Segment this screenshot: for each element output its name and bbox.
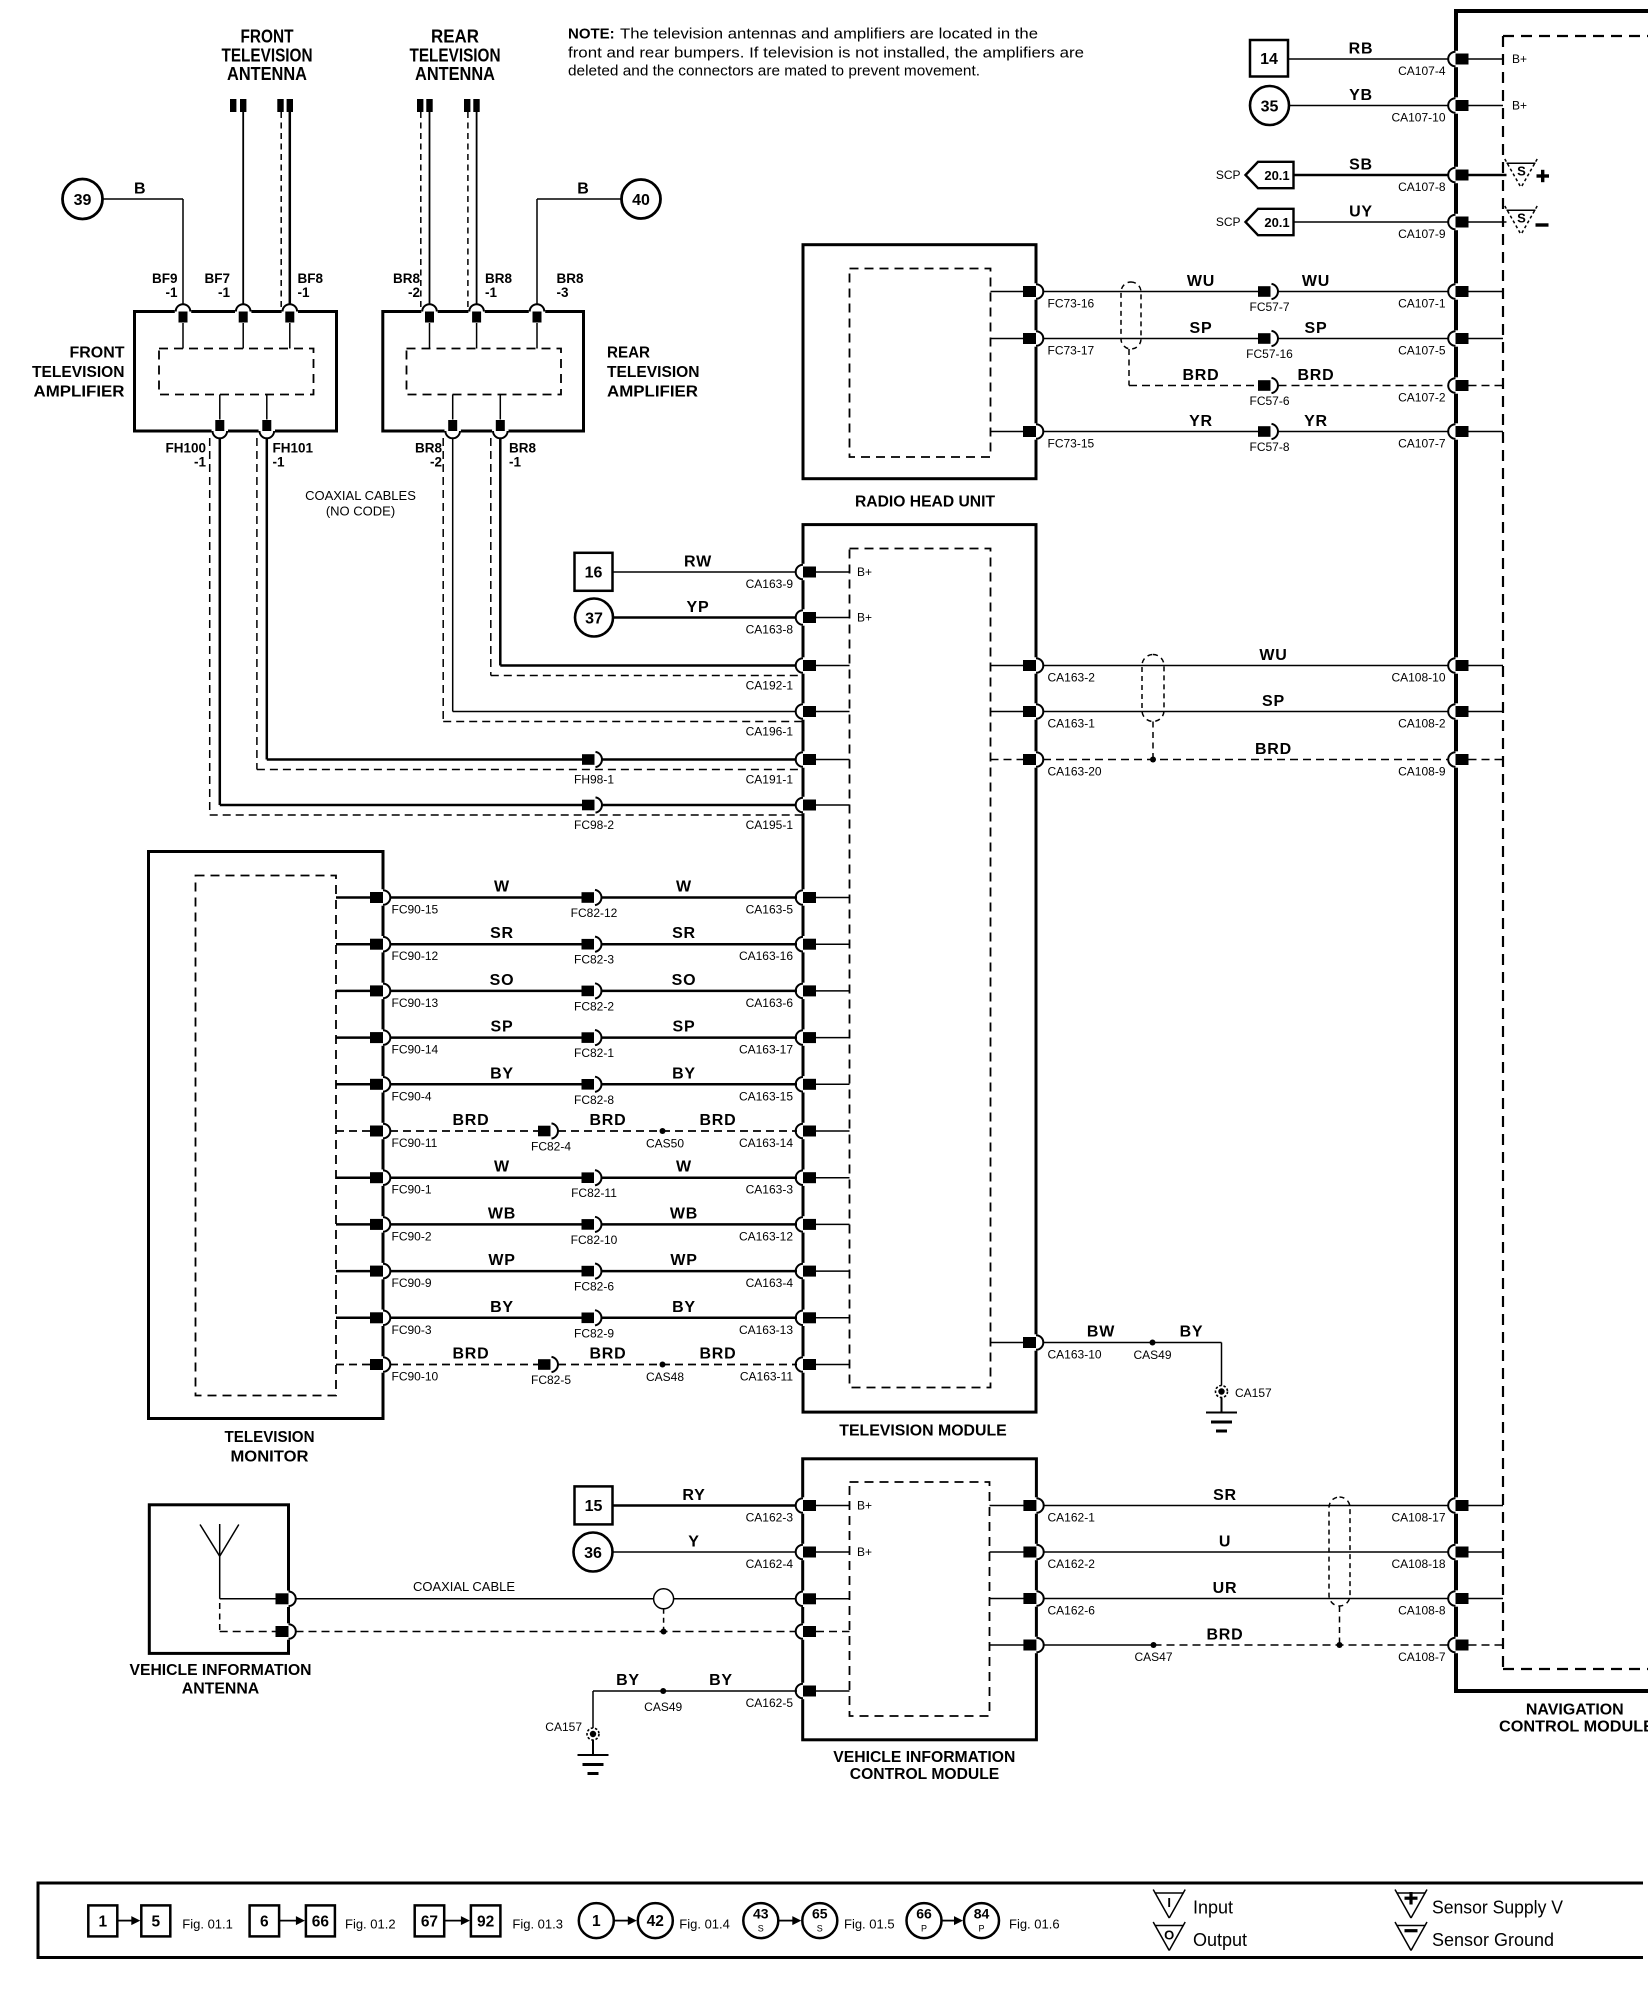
svg-text:SR: SR xyxy=(1213,1487,1237,1504)
svg-text:Fig. 01.4: Fig. 01.4 xyxy=(679,1916,730,1931)
svg-text:WP: WP xyxy=(488,1252,515,1269)
svg-text:FC82-1: FC82-1 xyxy=(574,1046,614,1060)
svg-text:FC73-16: FC73-16 xyxy=(1048,297,1095,311)
svg-text:CA163-1: CA163-1 xyxy=(1048,717,1096,731)
svg-text:BRD: BRD xyxy=(1297,367,1334,384)
svg-text:BF8: BF8 xyxy=(298,271,324,286)
svg-text:S: S xyxy=(817,1924,823,1934)
svg-text:FC57-6: FC57-6 xyxy=(1249,394,1289,408)
svg-text:BR8: BR8 xyxy=(415,441,442,456)
svg-text:FC82-5: FC82-5 xyxy=(531,1373,571,1387)
svg-text:ANTENNA: ANTENNA xyxy=(182,1681,260,1698)
svg-text:FC73-15: FC73-15 xyxy=(1048,437,1095,451)
svg-text:CA157: CA157 xyxy=(1235,1386,1272,1400)
svg-text:6: 6 xyxy=(260,1913,269,1930)
svg-text:CA163-9: CA163-9 xyxy=(746,577,794,591)
svg-text:SP: SP xyxy=(1305,320,1328,337)
svg-text:CONTROL MODULE: CONTROL MODULE xyxy=(1499,1719,1648,1736)
svg-text:YR: YR xyxy=(1304,413,1328,430)
svg-text:-1: -1 xyxy=(218,285,230,300)
svg-text:Fig. 01.6: Fig. 01.6 xyxy=(1009,1916,1060,1931)
svg-text:deleted and the connectors are: deleted and the connectors are mated to … xyxy=(568,63,980,80)
svg-text:Sensor Supply V: Sensor Supply V xyxy=(1432,1897,1563,1917)
svg-text:20.1: 20.1 xyxy=(1264,215,1289,230)
svg-text:CA192-1: CA192-1 xyxy=(746,679,794,693)
svg-text:YP: YP xyxy=(687,599,710,616)
svg-text:B+: B+ xyxy=(857,611,872,625)
svg-text:CA163-14: CA163-14 xyxy=(739,1136,793,1150)
svg-text:1: 1 xyxy=(98,1913,107,1930)
svg-text:S: S xyxy=(758,1924,764,1934)
svg-text:BF9: BF9 xyxy=(152,271,178,286)
svg-text:FC73-17: FC73-17 xyxy=(1048,344,1095,358)
svg-text:ANTENNA: ANTENNA xyxy=(227,64,307,84)
svg-text:FC90-14: FC90-14 xyxy=(392,1043,439,1057)
svg-text:CA191-1: CA191-1 xyxy=(746,773,794,787)
svg-text:-1: -1 xyxy=(509,455,521,470)
svg-text:65: 65 xyxy=(812,1906,828,1922)
svg-text:UR: UR xyxy=(1213,1580,1238,1597)
svg-text:The television antennas and am: The television antennas and amplifiers a… xyxy=(620,26,1038,43)
svg-text:CA163-17: CA163-17 xyxy=(739,1043,793,1057)
svg-text:UY: UY xyxy=(1349,204,1373,221)
svg-text:FC90-12: FC90-12 xyxy=(392,949,439,963)
svg-text:BY: BY xyxy=(490,1065,514,1082)
svg-text:BY: BY xyxy=(490,1299,514,1316)
svg-text:CA108-10: CA108-10 xyxy=(1391,671,1445,685)
svg-text:B: B xyxy=(577,181,589,198)
svg-text:BF7: BF7 xyxy=(204,271,230,286)
svg-text:CA163-13: CA163-13 xyxy=(739,1323,793,1337)
svg-text:CA162-6: CA162-6 xyxy=(1048,1604,1096,1618)
svg-text:CAS50: CAS50 xyxy=(646,1137,684,1151)
svg-text:BY: BY xyxy=(616,1672,640,1689)
svg-text:BR8: BR8 xyxy=(509,441,536,456)
svg-text:CA163-2: CA163-2 xyxy=(1048,671,1096,685)
svg-text:CA162-4: CA162-4 xyxy=(746,1557,794,1571)
svg-text:BRD: BRD xyxy=(452,1112,489,1129)
svg-text:COAXIAL CABLE: COAXIAL CABLE xyxy=(413,1579,515,1594)
svg-text:40: 40 xyxy=(632,192,650,209)
svg-text:BRD: BRD xyxy=(1182,367,1219,384)
svg-text:YB: YB xyxy=(1349,87,1373,104)
svg-text:CA108-17: CA108-17 xyxy=(1391,1511,1445,1525)
svg-text:CA107-9: CA107-9 xyxy=(1398,227,1446,241)
svg-text:CA108-18: CA108-18 xyxy=(1391,1557,1445,1571)
svg-text:SP: SP xyxy=(1262,693,1285,710)
svg-text:-1: -1 xyxy=(273,455,285,470)
svg-text:BRD: BRD xyxy=(1206,1627,1243,1644)
svg-text:CA162-3: CA162-3 xyxy=(746,1511,794,1525)
svg-text:WU: WU xyxy=(1302,273,1330,290)
svg-text:Fig. 01.2: Fig. 01.2 xyxy=(345,1916,396,1931)
svg-text:BRD: BRD xyxy=(452,1346,489,1363)
svg-text:FC90-1: FC90-1 xyxy=(392,1183,432,1197)
svg-text:CA107-8: CA107-8 xyxy=(1398,180,1446,194)
svg-text:CA162-2: CA162-2 xyxy=(1048,1557,1096,1571)
svg-text:BY: BY xyxy=(672,1299,696,1316)
svg-text:35: 35 xyxy=(1261,98,1279,115)
svg-text:YR: YR xyxy=(1189,413,1213,430)
svg-text:B+: B+ xyxy=(857,1499,872,1513)
svg-text:B: B xyxy=(134,181,146,198)
svg-text:66: 66 xyxy=(916,1906,932,1922)
svg-text:BY: BY xyxy=(1180,1324,1204,1341)
svg-text:FC57-16: FC57-16 xyxy=(1246,347,1293,361)
svg-text:20.1: 20.1 xyxy=(1264,168,1289,183)
svg-text:W: W xyxy=(494,1159,510,1176)
svg-text:CA108-2: CA108-2 xyxy=(1398,717,1446,731)
svg-text:RY: RY xyxy=(682,1487,705,1504)
svg-text:CA163-15: CA163-15 xyxy=(739,1089,793,1103)
svg-text:CA107-5: CA107-5 xyxy=(1398,344,1446,358)
svg-text:Output: Output xyxy=(1193,1930,1247,1950)
svg-text:CAS49: CAS49 xyxy=(1133,1348,1171,1362)
svg-text:-2: -2 xyxy=(430,455,442,470)
svg-text:FC82-2: FC82-2 xyxy=(574,999,614,1013)
svg-text:-3: -3 xyxy=(557,285,569,300)
svg-text:CA195-1: CA195-1 xyxy=(746,818,794,832)
svg-text:FRONT: FRONT xyxy=(70,345,126,362)
svg-text:FC82-12: FC82-12 xyxy=(571,906,618,920)
svg-text:CA107-7: CA107-7 xyxy=(1398,437,1446,451)
svg-text:Sensor Ground: Sensor Ground xyxy=(1432,1930,1554,1950)
svg-text:FC90-4: FC90-4 xyxy=(392,1089,432,1103)
svg-text:-1: -1 xyxy=(298,285,310,300)
svg-text:W: W xyxy=(494,879,510,896)
svg-text:SB: SB xyxy=(1349,157,1373,174)
svg-text:S: S xyxy=(1517,211,1526,226)
svg-text:FC57-7: FC57-7 xyxy=(1249,300,1289,314)
svg-text:CA108-8: CA108-8 xyxy=(1398,1604,1446,1618)
svg-text:BRD: BRD xyxy=(699,1346,736,1363)
svg-text:FC90-13: FC90-13 xyxy=(392,996,439,1010)
svg-text:WU: WU xyxy=(1187,273,1215,290)
svg-text:SP: SP xyxy=(1190,320,1213,337)
svg-text:39: 39 xyxy=(74,192,92,209)
svg-text:W: W xyxy=(676,1159,692,1176)
svg-text:-1: -1 xyxy=(194,455,206,470)
svg-text:CA162-5: CA162-5 xyxy=(746,1696,794,1710)
svg-text:CA163-8: CA163-8 xyxy=(746,623,794,637)
svg-text:14: 14 xyxy=(1260,51,1278,68)
svg-text:Fig. 01.1: Fig. 01.1 xyxy=(182,1916,233,1931)
svg-text:BR8: BR8 xyxy=(485,271,512,286)
svg-text:FC98-2: FC98-2 xyxy=(574,818,614,832)
svg-text:U: U xyxy=(1219,1534,1231,1551)
svg-text:B+: B+ xyxy=(857,565,872,579)
svg-text:FC90-10: FC90-10 xyxy=(392,1370,439,1384)
svg-text:TELEVISION: TELEVISION xyxy=(32,364,125,381)
svg-text:FC82-9: FC82-9 xyxy=(574,1326,614,1340)
svg-text:FC90-3: FC90-3 xyxy=(392,1323,432,1337)
svg-text:front and rear bumpers. If te: front and rear bumpers. If television is… xyxy=(568,45,1084,62)
svg-text:FRONT: FRONT xyxy=(241,27,294,47)
svg-text:CA107-10: CA107-10 xyxy=(1391,111,1445,125)
svg-text:WB: WB xyxy=(488,1205,516,1222)
svg-text:CAS49: CAS49 xyxy=(644,1700,682,1714)
svg-text:CAS48: CAS48 xyxy=(646,1370,684,1384)
svg-text:Input: Input xyxy=(1193,1897,1233,1917)
svg-text:36: 36 xyxy=(584,1545,602,1562)
svg-text:CA108-9: CA108-9 xyxy=(1398,765,1446,779)
svg-text:I: I xyxy=(1167,1895,1171,1910)
svg-text:P: P xyxy=(978,1924,984,1934)
svg-text:FC82-8: FC82-8 xyxy=(574,1093,614,1107)
svg-text:SCP: SCP xyxy=(1216,215,1241,229)
svg-text:5: 5 xyxy=(151,1913,160,1930)
svg-text:SO: SO xyxy=(490,972,515,989)
svg-text:15: 15 xyxy=(585,1498,603,1515)
svg-text:RB: RB xyxy=(1349,41,1374,58)
svg-text:Fig. 01.3: Fig. 01.3 xyxy=(512,1916,563,1931)
svg-text:AMPLIFIER: AMPLIFIER xyxy=(34,384,125,401)
svg-text:BRD: BRD xyxy=(589,1112,626,1129)
svg-text:NOTE:: NOTE: xyxy=(568,26,615,43)
svg-text:TELEVISION: TELEVISION xyxy=(222,45,313,65)
svg-text:-2: -2 xyxy=(408,285,420,300)
svg-text:FC90-2: FC90-2 xyxy=(392,1229,432,1243)
svg-text:66: 66 xyxy=(312,1913,330,1930)
svg-text:WP: WP xyxy=(670,1252,697,1269)
svg-text:VEHICLE INFORMATION: VEHICLE INFORMATION xyxy=(833,1749,1015,1766)
svg-text:-1: -1 xyxy=(165,285,177,300)
svg-text:(NO CODE): (NO CODE) xyxy=(326,504,395,519)
svg-text:BRD: BRD xyxy=(699,1112,736,1129)
svg-text:RADIO HEAD UNIT: RADIO HEAD UNIT xyxy=(855,494,995,511)
svg-text:1: 1 xyxy=(592,1913,601,1930)
svg-text:BRD: BRD xyxy=(1255,741,1292,758)
svg-text:TELEVISION: TELEVISION xyxy=(410,45,501,65)
svg-text:FC82-4: FC82-4 xyxy=(531,1140,571,1154)
svg-text:BY: BY xyxy=(672,1065,696,1082)
svg-text:P: P xyxy=(921,1924,927,1934)
svg-text:SR: SR xyxy=(490,925,514,942)
svg-text:CA196-1: CA196-1 xyxy=(746,725,794,739)
svg-text:CA163-4: CA163-4 xyxy=(746,1276,794,1290)
svg-text:VEHICLE INFORMATION: VEHICLE INFORMATION xyxy=(130,1662,312,1679)
svg-text:FC57-8: FC57-8 xyxy=(1249,440,1289,454)
svg-text:CA163-5: CA163-5 xyxy=(746,903,794,917)
svg-text:WU: WU xyxy=(1259,647,1287,664)
svg-text:B+: B+ xyxy=(1512,52,1527,66)
svg-text:FC82-3: FC82-3 xyxy=(574,953,614,967)
svg-text:FH98-1: FH98-1 xyxy=(574,773,614,787)
svg-text:CA163-20: CA163-20 xyxy=(1048,765,1102,779)
svg-text:NAVIGATION: NAVIGATION xyxy=(1526,1702,1624,1719)
svg-text:TELEVISION MODULE: TELEVISION MODULE xyxy=(839,1423,1007,1440)
svg-text:CA108-7: CA108-7 xyxy=(1398,1650,1446,1664)
svg-text:BW: BW xyxy=(1087,1324,1115,1341)
svg-text:CONTROL MODULE: CONTROL MODULE xyxy=(850,1766,1000,1783)
svg-text:COAXIAL CABLES: COAXIAL CABLES xyxy=(305,488,416,503)
svg-text:-1: -1 xyxy=(485,285,497,300)
svg-text:CA163-3: CA163-3 xyxy=(746,1183,794,1197)
svg-text:CA163-16: CA163-16 xyxy=(739,949,793,963)
svg-text:FC90-9: FC90-9 xyxy=(392,1276,432,1290)
svg-text:REAR: REAR xyxy=(607,345,650,362)
svg-text:92: 92 xyxy=(477,1913,494,1930)
svg-text:FC82-10: FC82-10 xyxy=(571,1233,618,1247)
svg-text:CA107-1: CA107-1 xyxy=(1398,297,1446,311)
svg-text:43: 43 xyxy=(753,1906,769,1922)
svg-text:MONITOR: MONITOR xyxy=(231,1449,309,1466)
svg-text:FC82-6: FC82-6 xyxy=(574,1280,614,1294)
svg-text:FC82-11: FC82-11 xyxy=(571,1186,617,1200)
svg-text:O: O xyxy=(1164,1928,1174,1943)
svg-text:REAR: REAR xyxy=(431,27,479,47)
svg-text:67: 67 xyxy=(421,1913,438,1930)
svg-text:FC90-15: FC90-15 xyxy=(392,903,439,917)
svg-text:ANTENNA: ANTENNA xyxy=(415,64,495,84)
svg-text:AMPLIFIER: AMPLIFIER xyxy=(607,384,698,401)
svg-text:CA163-10: CA163-10 xyxy=(1048,1348,1102,1362)
svg-text:W: W xyxy=(676,879,692,896)
svg-text:BR8: BR8 xyxy=(557,271,584,286)
svg-text:CA163-11: CA163-11 xyxy=(740,1370,793,1384)
svg-text:B+: B+ xyxy=(1512,99,1527,113)
svg-text:CA162-1: CA162-1 xyxy=(1048,1511,1096,1525)
svg-text:Fig. 01.5: Fig. 01.5 xyxy=(844,1916,895,1931)
svg-text:84: 84 xyxy=(974,1906,990,1922)
svg-text:SO: SO xyxy=(672,972,697,989)
svg-text:FH101: FH101 xyxy=(273,441,314,456)
svg-text:CA107-4: CA107-4 xyxy=(1398,64,1446,78)
svg-text:CA107-2: CA107-2 xyxy=(1398,391,1446,405)
svg-text:CA163-12: CA163-12 xyxy=(739,1229,793,1243)
svg-text:CAS47: CAS47 xyxy=(1134,1650,1172,1664)
svg-text:S: S xyxy=(1517,164,1526,179)
svg-text:B+: B+ xyxy=(857,1545,872,1559)
svg-text:SR: SR xyxy=(672,925,696,942)
svg-text:BR8: BR8 xyxy=(393,271,420,286)
svg-text:TELEVISION: TELEVISION xyxy=(225,1429,315,1446)
svg-text:42: 42 xyxy=(647,1913,664,1930)
svg-text:Y: Y xyxy=(688,1534,699,1551)
svg-text:SCP: SCP xyxy=(1216,168,1241,182)
svg-text:BRD: BRD xyxy=(589,1346,626,1363)
svg-text:37: 37 xyxy=(585,610,603,627)
svg-text:SP: SP xyxy=(491,1019,514,1036)
svg-text:16: 16 xyxy=(585,565,603,582)
svg-text:CA157: CA157 xyxy=(545,1720,582,1734)
svg-text:RW: RW xyxy=(684,554,712,571)
svg-text:FH100: FH100 xyxy=(165,441,206,456)
svg-text:FC90-11: FC90-11 xyxy=(392,1136,438,1150)
svg-text:WB: WB xyxy=(670,1205,698,1222)
svg-text:CA163-6: CA163-6 xyxy=(746,996,794,1010)
svg-text:SP: SP xyxy=(673,1019,696,1036)
svg-text:TELEVISION: TELEVISION xyxy=(607,364,700,381)
svg-text:BY: BY xyxy=(709,1672,733,1689)
